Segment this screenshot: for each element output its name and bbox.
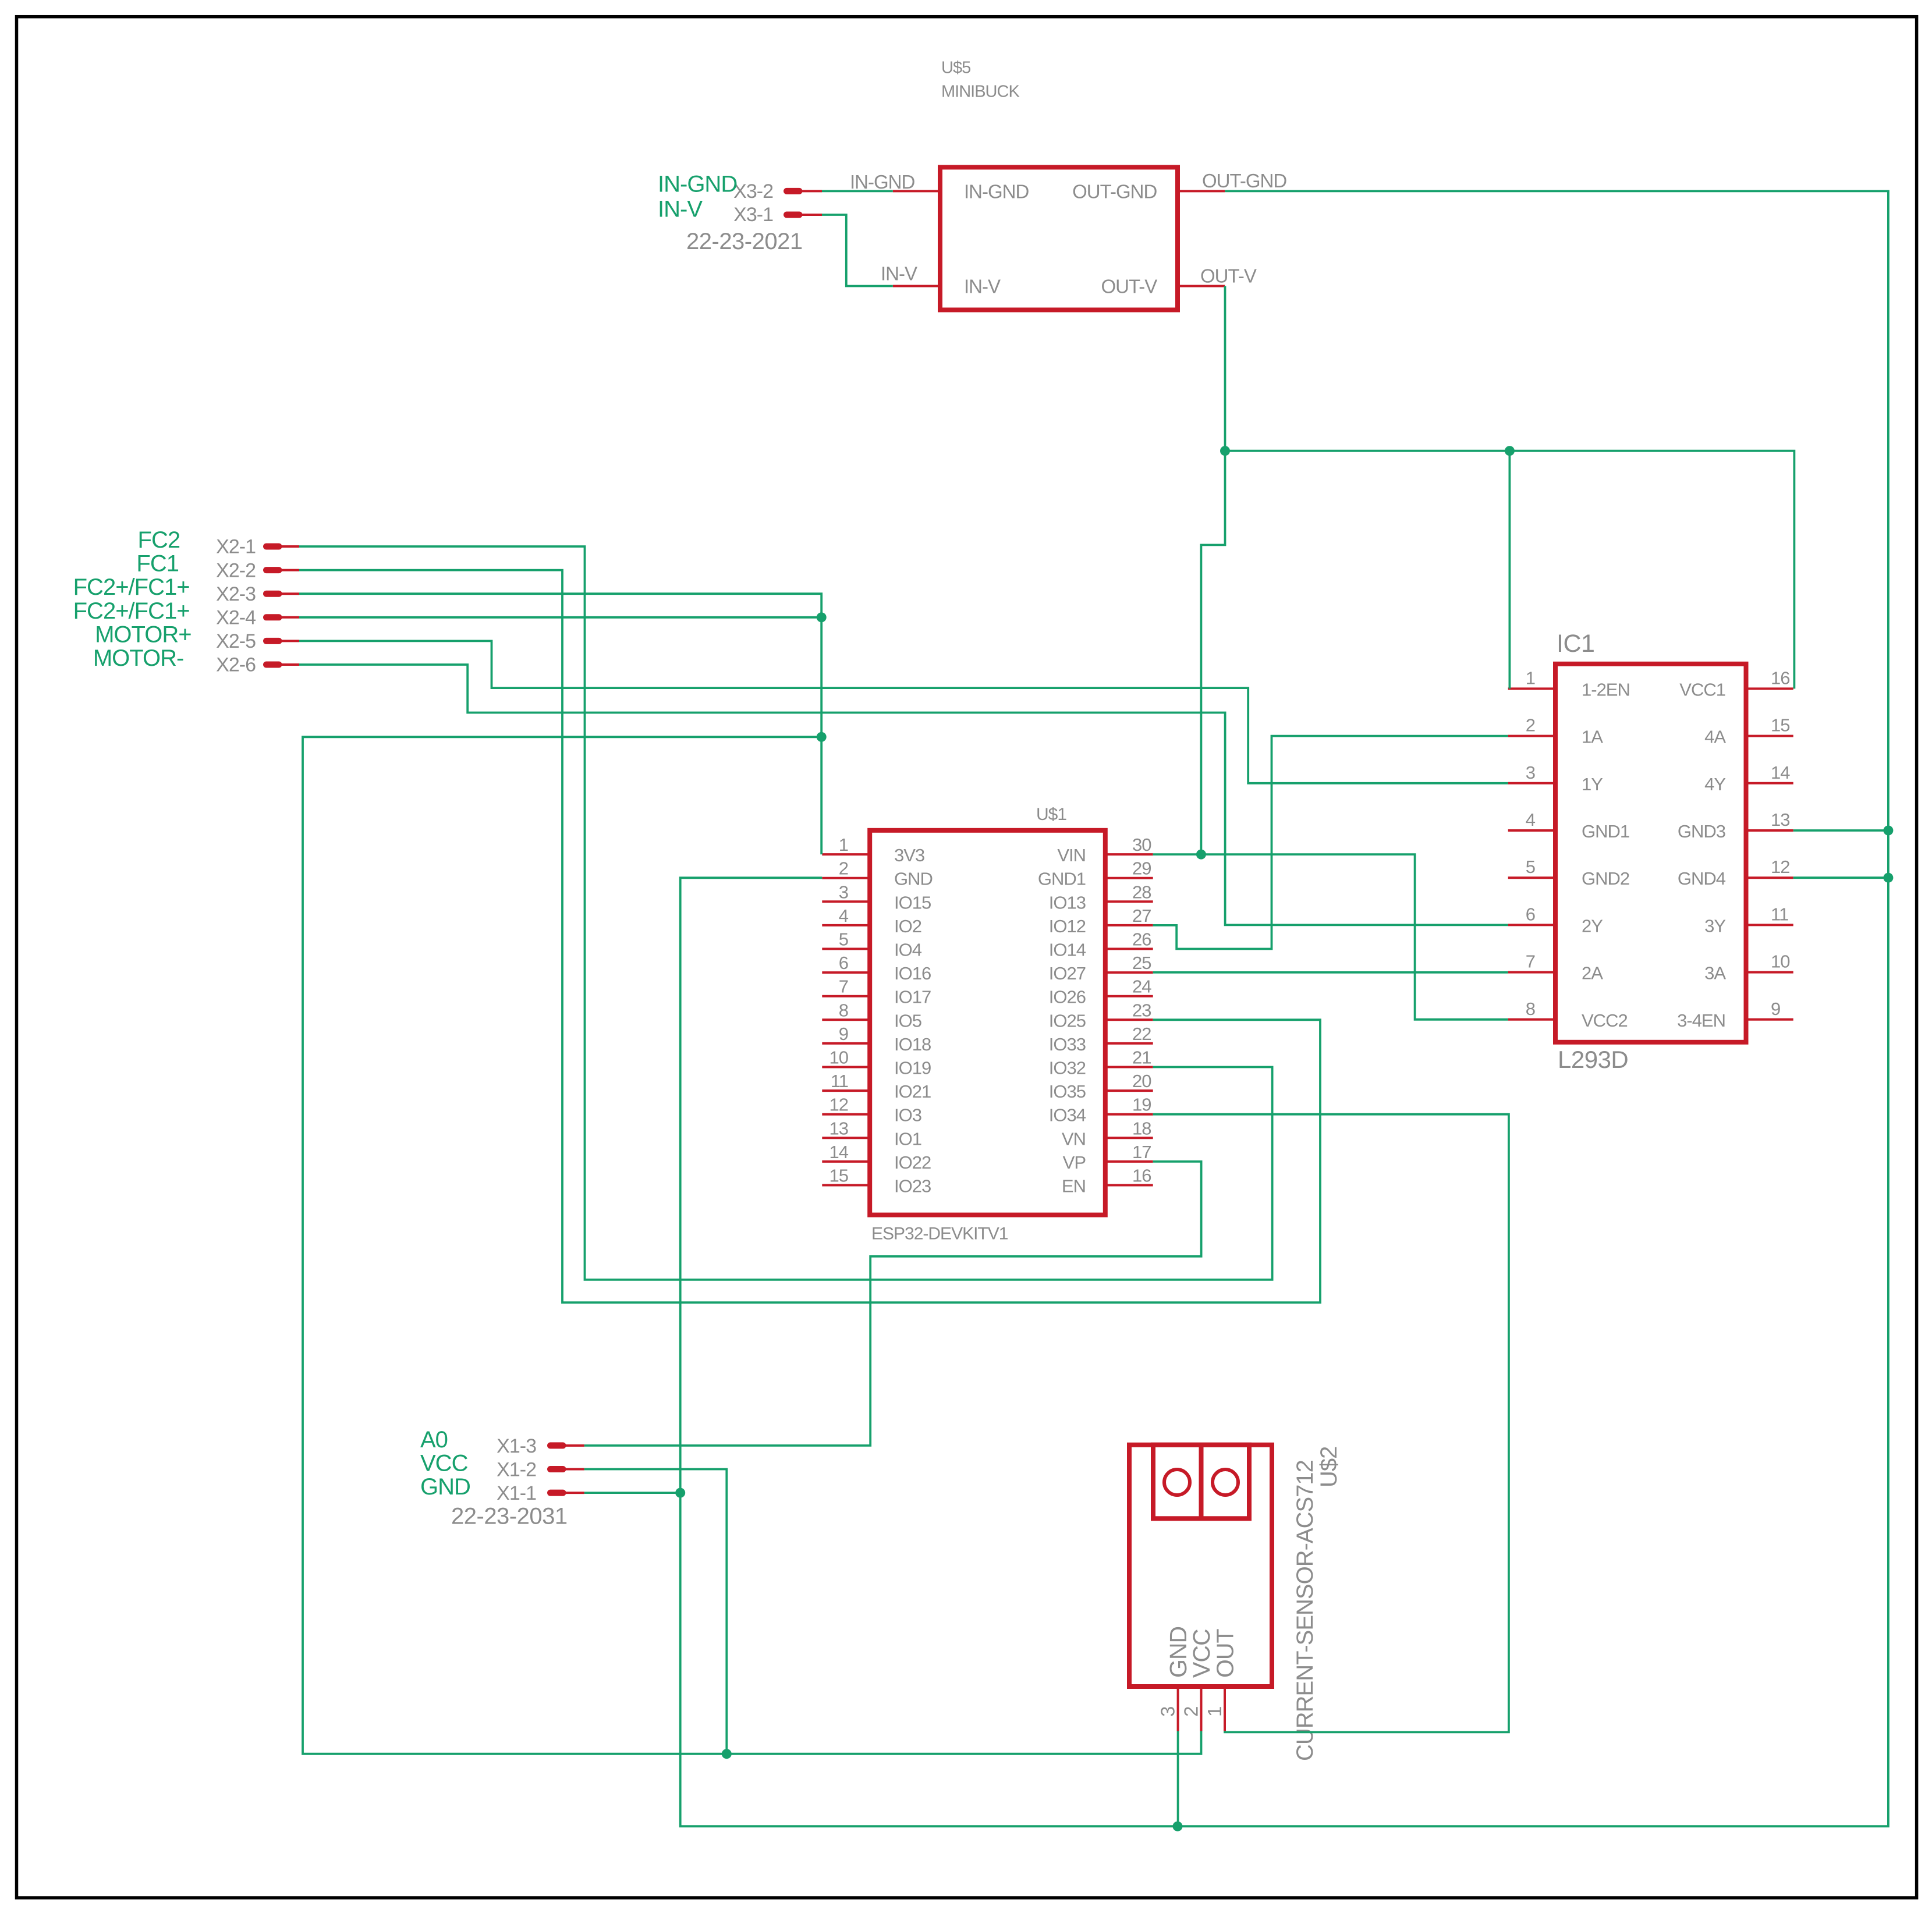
pin 21 IO32 [1105,1066,1153,1068]
pin 10 IO19 [822,1066,870,1068]
svg-text:X1-2: X1-2 [497,1459,536,1481]
svg-text:IO4: IO4 [894,940,922,960]
svg-text:L293D: L293D [1558,1046,1628,1073]
pin 20 IO35 [1105,1089,1153,1092]
pin 9 IO18 [822,1042,870,1045]
pin 3 IO15 [822,900,870,903]
pin 3 GND [1177,1687,1179,1731]
svg-text:IO23: IO23 [894,1176,931,1197]
svg-text:1: 1 [839,835,848,855]
svg-text:GND4: GND4 [1678,868,1726,889]
svg-text:OUT-V: OUT-V [1200,265,1257,286]
svg-text:2: 2 [1181,1707,1202,1717]
wire VCC: X1-2 branch [584,1469,727,1754]
junction GND3 [1883,826,1893,836]
wire VCC: west branch to sensor VCC [303,737,1201,1753]
connector X1-3 pin [551,1442,563,1449]
svg-text:10: 10 [829,1048,849,1068]
svg-text:VCC1: VCC1 [1679,679,1725,700]
svg-text:IO25: IO25 [1049,1010,1086,1031]
svg-text:X2-5: X2-5 [216,630,256,652]
svg-text:28: 28 [1132,882,1151,902]
pin 12 IO3 [822,1113,870,1116]
pin 14 IO22 [822,1160,870,1163]
pin 26 IO14 [1105,948,1153,950]
terminal divider [1199,1445,1204,1519]
pin 8 IO5 [822,1018,870,1021]
svg-text:VN: VN [1062,1128,1086,1149]
svg-text:IO22: IO22 [894,1152,931,1173]
pin 8 VCC2 [1508,1018,1555,1021]
svg-text:VCC: VCC [1188,1629,1215,1678]
svg-text:3: 3 [1157,1707,1179,1717]
pin 29 GND1 [1105,877,1153,879]
pin 3 1Y [1508,782,1555,784]
svg-text:3: 3 [1526,762,1535,783]
pin 15 4A [1746,735,1793,737]
svg-text:CURRENT-SENSOR-ACS712: CURRENT-SENSOR-ACS712 [1292,1460,1318,1761]
svg-text:3: 3 [839,882,848,902]
svg-text:30: 30 [1132,835,1151,855]
pin 13 IO1 [822,1137,870,1139]
junction sensor GND [1173,1822,1183,1831]
svg-text:IO19: IO19 [894,1058,931,1078]
svg-text:X2-4: X2-4 [216,607,256,629]
svg-text:IO18: IO18 [894,1034,931,1055]
svg-text:17: 17 [1132,1142,1151,1162]
connector X3-2 pin [787,188,800,194]
pin 7 2A [1508,971,1555,974]
svg-text:19: 19 [1132,1095,1151,1115]
pin 11 IO21 [822,1089,870,1092]
wire FC2: X2-1 to ESP32 IO32 [299,546,1272,1280]
svg-text:1: 1 [1526,668,1535,688]
svg-text:3V3: 3V3 [894,845,924,865]
pin 16 VCC1 [1746,687,1793,690]
pin 18 VN [1105,1137,1153,1139]
wire VIN: top rail to L293D VCC1 [1225,451,1795,689]
pin 24 IO26 [1105,995,1153,997]
svg-text:IO34: IO34 [1049,1105,1086,1126]
svg-text:IO13: IO13 [1049,892,1086,913]
svg-text:22: 22 [1132,1024,1151,1044]
svg-text:FC2+/FC1+: FC2+/FC1+ [73,574,190,600]
junction X1-2/VCC [722,1749,732,1759]
IC1 L293D box [1555,664,1746,1042]
svg-text:18: 18 [1132,1118,1151,1138]
pin 16 EN [1105,1184,1153,1187]
pin 27 IO12 [1105,924,1153,926]
wire IO27 to L293D 2A [1153,971,1508,974]
svg-text:7: 7 [839,977,848,997]
pin 2 VCC [1200,1687,1203,1731]
pin 30 VIN [1105,853,1153,855]
svg-text:15: 15 [1771,715,1789,736]
pin 4 IO2 [822,924,870,926]
svg-text:8: 8 [1526,999,1535,1019]
pin 5 GND2 [1508,876,1555,879]
wire MOTOR+: X2-5 to L293D 1Y [299,641,1508,783]
svg-text:OUT: OUT [1212,1629,1239,1678]
wire GND: GND4 branch [1793,876,1888,879]
svg-text:22-23-2031: 22-23-2031 [451,1504,568,1529]
svg-text:1-2EN: 1-2EN [1582,679,1630,700]
wire VIN: ESP32 VIN to L293D VCC2 [1153,854,1508,1020]
svg-text:3A: 3A [1704,963,1726,984]
pin 7 IO17 [822,995,870,997]
wire GND: X1-1 branch [584,1492,680,1494]
wire VCC: X2-4 branch [299,616,821,619]
svg-text:25: 25 [1132,953,1151,973]
wire VIN: branch to L293D 1-2EN [1508,451,1511,689]
module U$2 CURRENT-SENSOR-ACS712 box [1129,1445,1272,1687]
svg-text:12: 12 [1771,857,1789,877]
svg-text:16: 16 [1132,1166,1151,1186]
junction GND4 [1883,873,1893,883]
connector X2-1 pin [267,544,279,550]
svg-text:14: 14 [1771,762,1790,783]
svg-text:16: 16 [1771,668,1789,688]
svg-text:24: 24 [1132,977,1151,997]
svg-text:IN-GND: IN-GND [850,171,914,193]
svg-text:GND: GND [420,1474,470,1500]
pin 14 4Y [1746,782,1793,784]
svg-text:6: 6 [839,953,848,973]
svg-text:13: 13 [1771,810,1789,830]
svg-text:IO27: IO27 [1049,963,1086,984]
svg-text:IO14: IO14 [1049,940,1086,960]
svg-text:FC1: FC1 [136,551,179,577]
svg-text:IN-V: IN-V [658,197,703,222]
svg-text:9: 9 [839,1024,848,1044]
wire GND: GND3 branch [1793,829,1888,832]
svg-text:10: 10 [1771,952,1790,972]
svg-text:IN-V: IN-V [964,276,1001,297]
svg-text:4A: 4A [1704,727,1726,747]
svg-text:1Y: 1Y [1582,774,1603,794]
svg-text:11: 11 [831,1071,848,1091]
svg-text:IO26: IO26 [1049,987,1086,1007]
connector X2-5 pin [267,638,279,644]
svg-text:23: 23 [1132,1000,1151,1020]
junction OUT-V rail [1220,446,1230,456]
svg-text:IO12: IO12 [1049,916,1086,936]
svg-text:ESP32-DEVKITV1: ESP32-DEVKITV1 [871,1224,1008,1244]
junction X1-1 [675,1488,685,1498]
pin 15 IO23 [822,1184,870,1187]
svg-text:1A: 1A [1582,727,1603,747]
svg-text:14: 14 [829,1142,849,1162]
pin 1 1-2EN [1508,687,1555,690]
svg-text:9: 9 [1771,999,1780,1019]
junction 1-2EN branch [1505,446,1515,456]
wire GND: sensor GND branch [1177,1731,1179,1827]
connector X2-2 pin [267,567,279,573]
svg-text:GND: GND [894,869,933,889]
connector X1-1 pin [551,1490,563,1496]
pin 22 IO33 [1105,1042,1153,1045]
pin 13 GND3 [1746,829,1793,832]
pin 12 GND4 [1746,876,1793,879]
pin U$5 OUT-GND stub [1178,190,1225,192]
pin 9 3-4EN [1746,1018,1793,1021]
pin 10 3A [1746,971,1793,974]
svg-text:3-4EN: 3-4EN [1677,1010,1725,1031]
pin 17 VP [1105,1160,1153,1163]
connector X2-4 pin [267,614,279,620]
svg-text:13: 13 [829,1118,848,1138]
svg-text:IC1: IC1 [1557,630,1594,658]
svg-text:15: 15 [829,1166,848,1186]
svg-text:5: 5 [1526,857,1535,877]
svg-text:26: 26 [1132,929,1151,950]
svg-text:2Y: 2Y [1582,915,1603,936]
pin 5 IO4 [822,948,870,950]
svg-text:IO16: IO16 [894,963,931,984]
svg-text:IO1: IO1 [894,1128,921,1149]
connector X2-6 pin [267,662,279,668]
wire IN-GND: X3-2 to U$5 [822,190,893,192]
pin 19 IO34 [1105,1113,1153,1116]
svg-text:IO15: IO15 [894,892,931,913]
svg-text:VCC: VCC [420,1451,468,1476]
svg-text:3Y: 3Y [1704,915,1725,936]
svg-text:IN-GND: IN-GND [964,180,1029,202]
pin 11 3Y [1746,924,1793,926]
terminal screw circle right [1213,1469,1238,1495]
svg-text:FC2+/FC1+: FC2+/FC1+ [73,598,190,624]
svg-text:22-23-2021: 22-23-2021 [686,229,803,254]
svg-text:21: 21 [1132,1048,1151,1068]
wire IO12 to L293D 1A [1153,736,1508,949]
svg-text:GND1: GND1 [1582,821,1629,842]
junction VCC west [817,732,827,742]
wire IO34 to sensor OUT [1153,1114,1509,1733]
pin U$5 OUT-V stub [1178,285,1225,287]
pin 1 OUT [1224,1687,1226,1731]
svg-text:OUT-GND: OUT-GND [1202,170,1286,191]
svg-text:IO2: IO2 [894,916,921,936]
wire FC1: X2-2 to ESP32 IO25 [299,570,1320,1303]
svg-text:OUT-V: OUT-V [1101,276,1157,297]
svg-text:4Y: 4Y [1704,774,1725,794]
svg-text:X3-1: X3-1 [733,204,773,226]
svg-text:GND1: GND1 [1038,869,1086,889]
pin 23 IO25 [1105,1018,1153,1021]
svg-text:7: 7 [1526,952,1535,972]
svg-text:20: 20 [1132,1071,1151,1091]
svg-text:IO17: IO17 [894,987,931,1007]
pin 2 1A [1508,735,1555,737]
connector X2-3 pin [267,591,279,597]
svg-text:X2-6: X2-6 [216,654,256,676]
pin 25 IO27 [1105,971,1153,974]
wire GND: ESP32 GND / bottom rail / right rail / OUT-GND [680,191,1888,1826]
wire VCC: X2-3 to ESP32 3V3 [299,594,821,854]
svg-text:IO35: IO35 [1049,1081,1086,1102]
svg-text:27: 27 [1132,906,1151,926]
svg-text:VCC2: VCC2 [1582,1010,1628,1031]
pin 1 3V3 [822,853,870,855]
svg-text:A0: A0 [420,1427,448,1453]
svg-text:29: 29 [1132,858,1151,879]
svg-text:U$5: U$5 [941,58,970,77]
junction X2-4 [817,612,827,622]
wire A0: ESP32 VP to X1-3 [584,1162,1201,1446]
wire IN-V: X3-1 to U$5 [822,215,893,286]
svg-text:MOTOR+: MOTOR+ [95,622,192,647]
svg-text:GND3: GND3 [1678,821,1725,842]
svg-text:4: 4 [839,906,849,926]
svg-text:2: 2 [839,858,848,879]
svg-text:VP: VP [1063,1152,1086,1173]
svg-text:GND2: GND2 [1582,868,1629,889]
svg-text:IO32: IO32 [1049,1058,1086,1078]
pin 6 2Y [1508,924,1555,926]
connector X1-2 pin [551,1466,563,1472]
svg-text:6: 6 [1526,904,1535,924]
svg-text:8: 8 [839,1000,848,1020]
svg-text:U$1: U$1 [1036,805,1066,824]
svg-text:U$2: U$2 [1316,1447,1342,1487]
svg-text:1: 1 [1204,1707,1225,1717]
svg-text:X1-1: X1-1 [497,1482,536,1504]
svg-text:FC2: FC2 [138,527,180,553]
module U$1 ESP32 box [870,830,1105,1215]
svg-text:2: 2 [1526,715,1535,736]
pin U$5 IN-V stub [893,285,940,287]
pin 4 GND1 [1508,829,1555,832]
svg-text:VIN: VIN [1057,845,1086,865]
pin 2 GND [822,877,870,879]
svg-text:4: 4 [1526,810,1536,830]
svg-text:IN-GND: IN-GND [658,172,737,197]
wire MOTOR-: X2-6 to L293D 2Y [299,665,1508,925]
svg-text:EN: EN [1062,1176,1086,1197]
junction VIN [1196,850,1206,860]
svg-text:MINIBUCK: MINIBUCK [941,82,1020,101]
svg-text:IO5: IO5 [894,1010,921,1031]
connector X3-1 pin [787,212,800,218]
svg-text:IO21: IO21 [894,1081,931,1102]
svg-text:X2-1: X2-1 [216,536,256,558]
svg-text:IO3: IO3 [894,1105,921,1126]
svg-text:5: 5 [839,929,848,950]
terminal block box [1153,1445,1249,1519]
svg-text:X2-3: X2-3 [216,583,256,605]
terminal screw circle left [1164,1469,1190,1495]
pin U$5 IN-GND stub [893,190,940,192]
svg-text:X1-3: X1-3 [497,1435,536,1457]
svg-text:IO33: IO33 [1049,1034,1086,1055]
svg-text:OUT-GND: OUT-GND [1072,180,1157,202]
svg-text:IN-V: IN-V [881,263,917,285]
svg-text:X3-2: X3-2 [733,180,773,203]
module U$5 MINIBUCK box [940,167,1178,310]
pin 6 IO16 [822,971,870,974]
wire VIN: riser to U$5 OUT-V [1201,286,1225,855]
svg-text:X2-2: X2-2 [216,559,256,581]
svg-text:12: 12 [829,1095,848,1115]
svg-text:2A: 2A [1582,963,1603,984]
svg-text:MOTOR-: MOTOR- [93,645,183,671]
svg-text:11: 11 [1771,904,1788,924]
pin 28 IO13 [1105,900,1153,903]
